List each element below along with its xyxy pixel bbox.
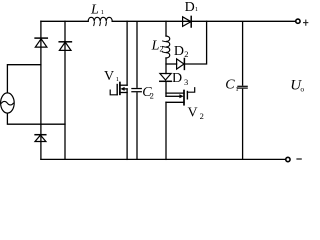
diode VD3 (leg1 bottom, points up) — [35, 135, 46, 142]
wire L2 to D3 — [165, 58, 167, 74]
svg-text:D: D — [174, 44, 184, 59]
top rail wire after L1 — [112, 20, 295, 22]
diode VD2 (leg2 top, points up) — [59, 42, 71, 51]
svg-text:1: 1 — [101, 9, 104, 16]
svg-text:V: V — [188, 106, 198, 121]
wire source top to leg1 — [7, 65, 41, 93]
terminal - (bottom right) — [286, 157, 290, 161]
transistor V1 (MOSFET) — [110, 83, 127, 95]
svg-text:2: 2 — [184, 49, 188, 59]
diode D1 (on top rail, points right) — [183, 16, 192, 27]
wire L2 top from rail — [165, 21, 167, 36]
diode VD1 (leg1 top, points up) — [35, 38, 47, 47]
svg-text:L: L — [90, 3, 99, 18]
wire C2 bottom — [136, 92, 138, 159]
svg-text:1: 1 — [195, 6, 198, 13]
svg-text:1: 1 — [116, 76, 119, 83]
top rail wire — [41, 20, 88, 22]
svg-text:2: 2 — [150, 90, 154, 100]
AC source VS — [1, 93, 15, 113]
wire rectifier leg 1 — [40, 21, 42, 159]
svg-text:L: L — [151, 38, 160, 53]
wire source bottom to leg2 — [7, 113, 65, 124]
wire V1 source to bottom rail — [126, 89, 128, 159]
wire V2 source to bottom rail — [165, 102, 167, 159]
wire C1 top — [242, 21, 244, 85]
svg-text:2: 2 — [160, 45, 164, 54]
wire C1 bottom — [242, 89, 244, 160]
svg-text:1: 1 — [235, 86, 238, 93]
inductor L2 — [166, 36, 170, 58]
wire V1 drain from top rail — [126, 21, 128, 85]
capacitor C1 — [237, 86, 248, 89]
inductor L1 — [88, 17, 112, 21]
wire rectifier leg 2 — [64, 21, 66, 159]
svg-text:o: o — [300, 84, 304, 93]
wire D2 branch — [166, 63, 177, 65]
svg-text:2: 2 — [200, 111, 204, 121]
svg-text:D: D — [172, 71, 182, 86]
svg-text:V: V — [104, 69, 114, 84]
bottom rail wire — [41, 158, 285, 160]
plus mark — [304, 20, 308, 25]
wire D3 to V2 — [165, 81, 167, 96]
minus mark — [297, 158, 301, 160]
svg-text:C: C — [225, 77, 235, 92]
diode D3 (points down) — [160, 74, 171, 82]
terminal + (top right) — [296, 19, 300, 23]
wire D2 cathode up to rail — [184, 21, 206, 64]
diode D2 (points right) — [177, 59, 185, 70]
wire C2 top — [136, 21, 138, 88]
AC source sine — [1, 101, 13, 105]
capacitor C2 — [131, 88, 142, 92]
transistor V2 (MOSFET, mirrored) — [166, 88, 195, 105]
svg-text:3: 3 — [184, 77, 188, 87]
svg-text:D: D — [185, 0, 195, 15]
